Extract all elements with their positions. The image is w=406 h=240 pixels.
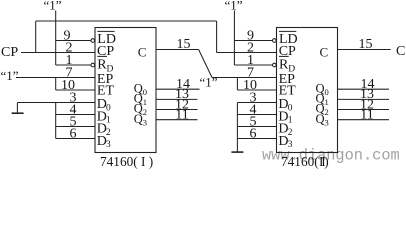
ground (U2 data inputs) xyxy=(231,151,243,153)
svg-text:): ) xyxy=(324,154,328,169)
svg-text:C: C xyxy=(396,44,405,59)
wire: CP branch vertical up xyxy=(35,21,37,53)
wire: vertical joining U2 EP and ET xyxy=(236,78,238,91)
wire: U2 pin 1 RD xyxy=(234,64,272,66)
svg-text:74160( I ): 74160( I ) xyxy=(100,154,153,169)
wire: vertical joining U1 EP and ET xyxy=(55,78,57,91)
wire: U2 pin 11 Q3 xyxy=(338,119,390,121)
wire: U1 pin 10 ET xyxy=(56,89,95,91)
svg-text:2: 2 xyxy=(325,107,329,117)
wire: U1 pin 4 D1 xyxy=(56,114,95,116)
wire: U1 pin 14 Q0 xyxy=(156,88,200,90)
svg-text:CP: CP xyxy=(1,45,18,60)
svg-text:6: 6 xyxy=(70,127,77,142)
wire: ground to U1 pin 3 D0 xyxy=(17,102,95,104)
wire: U1 pin 9 LD xyxy=(56,40,91,42)
wire: U2 pin 15 C output xyxy=(338,49,391,51)
wire: U2 D bus vertical down to ground xyxy=(236,103,238,152)
svg-text:1: 1 xyxy=(143,97,147,107)
svg-text:“1”: “1” xyxy=(1,68,19,83)
wire: "1" to U1 pin 7 EP xyxy=(16,77,95,79)
svg-text:“1”: “1” xyxy=(43,0,61,12)
svg-text:3: 3 xyxy=(143,117,147,127)
U1 RD inversion bubble (pin 1) xyxy=(91,63,95,67)
svg-text:0: 0 xyxy=(143,87,147,97)
U2 RD inversion bubble (pin 1) xyxy=(273,63,277,67)
svg-text:“1”: “1” xyxy=(224,0,242,12)
wire: U1 pin 15 C output xyxy=(156,49,199,51)
wire: U2 pin 12 Q2 xyxy=(338,109,390,111)
wire: CP distribution line to U2 xyxy=(36,20,217,22)
svg-text:0: 0 xyxy=(325,87,329,97)
svg-text:Q: Q xyxy=(316,112,325,126)
wire: CP to U1 pin 2 xyxy=(21,52,95,54)
svg-text:3: 3 xyxy=(325,117,329,127)
svg-text:6: 6 xyxy=(250,127,257,142)
svg-text:Q: Q xyxy=(134,112,143,126)
wire: U1 pin 6 D3 xyxy=(56,138,95,140)
wire: U2 pin 6 D3 xyxy=(237,138,276,140)
U2 LD inversion bubble (pin 9) xyxy=(273,39,277,43)
wire: U1 pin 11 Q3 xyxy=(156,119,198,121)
U1 LD inversion bubble (pin 9) xyxy=(91,39,95,43)
ground (U1 data inputs) xyxy=(16,103,18,113)
svg-text:1: 1 xyxy=(247,53,254,68)
wire: U1 pin 13 Q1 xyxy=(156,98,198,100)
svg-text:2: 2 xyxy=(143,107,147,117)
wire: U2 pin 3 D0 xyxy=(237,102,276,104)
wire: "1" vertical down to RD wire of U1 xyxy=(55,11,57,66)
svg-text:3: 3 xyxy=(106,140,111,150)
wire: U1 pin 12 Q2 xyxy=(156,109,198,111)
svg-text:C: C xyxy=(138,45,147,60)
wire: U2 pin 4 D1 xyxy=(237,114,276,116)
svg-text:3: 3 xyxy=(288,140,293,150)
wire: diagonal from U1 C down to U2 EP xyxy=(199,50,212,78)
svg-text:11: 11 xyxy=(360,108,373,123)
wire: CP drop to U2 pin 2 xyxy=(216,21,218,53)
wire: U1 pin 1 RD xyxy=(56,64,91,66)
svg-text:15: 15 xyxy=(177,37,191,52)
svg-text:1: 1 xyxy=(325,97,329,107)
IC U1 74160(I) box xyxy=(95,28,156,153)
svg-text:C: C xyxy=(320,45,329,60)
wire: U2 pin 5 D2 xyxy=(237,126,276,128)
wire: U1 D bus vertical xyxy=(55,103,57,139)
svg-text:74160(: 74160( xyxy=(281,154,319,169)
wire: into U2 pin 7 EP xyxy=(212,77,277,79)
svg-text:“1”: “1” xyxy=(199,75,217,90)
wire: U2 pin 9 LD xyxy=(234,40,272,42)
svg-text:11: 11 xyxy=(175,108,188,123)
svg-text:15: 15 xyxy=(359,37,373,52)
wire: U1 pin 5 D2 xyxy=(56,126,95,128)
wire: U2 pin 2 CP xyxy=(217,52,277,54)
wire: "1" vertical down to RD wire of U2 xyxy=(233,11,235,66)
wire: U2 pin 10 ET xyxy=(237,89,276,91)
IC U2 74160(II) box xyxy=(277,28,338,153)
wire: U2 pin 14 Q0 xyxy=(338,88,390,90)
wire: U2 pin 13 Q1 xyxy=(338,98,390,100)
